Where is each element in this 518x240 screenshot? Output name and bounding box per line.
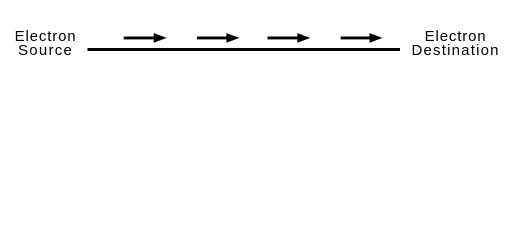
- node: Electron Destination label, line 2: [401, 43, 511, 58]
- wire: conductor line from source to destination: [88, 48, 401, 51]
- arrow 3: electron flow direction: [268, 33, 311, 43]
- arrow 1: electron flow direction: [124, 33, 167, 43]
- arrow 2: electron flow direction: [197, 33, 239, 43]
- node: Electron Source label, line 1: [1, 29, 90, 44]
- arrow 4: electron flow direction: [341, 33, 383, 43]
- node: Electron Destination label, line 1: [401, 29, 511, 44]
- node: Electron Source label, line 2: [1, 43, 90, 58]
